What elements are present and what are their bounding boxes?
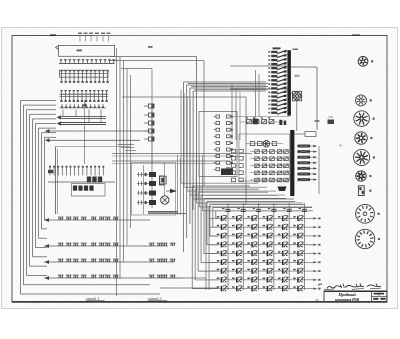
matrix column 4 wire: [273, 203, 275, 290]
connector X1 body: [59, 46, 115, 57]
matrix cell VT36: [293, 234, 295, 235]
corner links into cluster: [118, 144, 135, 146]
relay module A8: [358, 186, 364, 196]
matrix cell VT62: [232, 260, 234, 261]
wire node row top: [230, 65, 287, 67]
resistor R5: [328, 120, 335, 125]
matrix cell VT96: [293, 286, 295, 287]
relay K2 chain contacts: [149, 172, 156, 177]
drawing frame border: [12, 36, 387, 302]
matrix cell VT25: [278, 225, 280, 226]
signal row 2 contacts A: [58, 243, 60, 246]
matrix cell VT63: [247, 260, 249, 261]
matrix column 1 capacitor: [226, 208, 231, 210]
matrix cell VT35: [278, 234, 280, 235]
signal row 1 contacts A: [58, 217, 60, 220]
title block dividers: [371, 291, 373, 302]
center bundle B verticals: [183, 82, 185, 252]
relay group box outline: [239, 134, 290, 181]
diode pair VD1: [253, 119, 259, 125]
top link wire 2: [110, 60, 204, 62]
matrix cell VT91: [217, 286, 219, 287]
wire XS1 to right node: [291, 66, 317, 68]
block left edge wire: [84, 100, 86, 164]
top link wire 3: [121, 68, 152, 70]
cluster C relay blobs A: [87, 177, 91, 183]
svg-text:1,5k: 1,5k: [328, 115, 334, 119]
motor symbol M1 box: [293, 91, 302, 101]
signal row 3 wire: [44, 261, 174, 263]
matrix cell VT72: [232, 269, 234, 270]
bus rule pair upper: [61, 115, 106, 117]
row flag 2a: [57, 115, 62, 119]
relay column R3: [231, 149, 235, 153]
matrix cell VT15: [278, 216, 280, 217]
matrix column 1 wire: [227, 203, 229, 290]
tube socket V6: [354, 149, 370, 165]
arrow contact glyph: [170, 189, 177, 193]
signal row 4 flag: [45, 276, 50, 280]
matrix cell VT41: [217, 242, 219, 243]
relay matrix R2 grid: [255, 150, 260, 154]
connector strip XS2 body bar: [290, 130, 294, 196]
matrix cell VT92: [232, 286, 234, 287]
tube socket V1: [358, 56, 368, 66]
matrix cell VT93: [247, 286, 249, 287]
signal row 2 contacts Ab: [91, 243, 93, 246]
matrix row 5 wire: [209, 253, 314, 255]
cluster C left flags: [48, 170, 53, 173]
matrix cell VT12: [232, 216, 234, 217]
matrix cell VT42: [232, 242, 234, 243]
connector X1 pin comb: [59, 63, 115, 65]
tube socket V3: [356, 95, 367, 106]
matrix cell VT43: [247, 242, 249, 243]
resistor R4 in cluster: [160, 176, 165, 185]
top link wire 1: [110, 56, 197, 58]
left wire bundle verticals: [20, 101, 22, 295]
title block outline: [324, 291, 387, 302]
row flag 1a: [82, 103, 86, 107]
signal row 2 contacts B: [149, 243, 151, 246]
matrix cell VT26: [293, 225, 295, 226]
matrix cell VT14: [263, 216, 265, 217]
signal row 1 flag: [45, 218, 50, 222]
gap crossing wire: [230, 116, 290, 118]
matrix row 7 wire: [209, 270, 314, 272]
connector X3 pin comb: [60, 93, 109, 95]
matrix cell VT73: [247, 269, 249, 270]
component chain wire: [151, 104, 153, 208]
relay K2 cluster box: [132, 163, 176, 216]
cluster C outline box: [72, 184, 106, 197]
signal row 1 wire: [44, 219, 150, 221]
connector X2 posts: [61, 70, 63, 82]
comb block to bus links: [62, 110, 64, 117]
matrix cell VT74: [263, 269, 265, 270]
matrix cell VT23: [247, 225, 249, 226]
matrix row 3 wire: [209, 235, 314, 237]
matrix column 5 wire: [288, 203, 290, 290]
wire XT1 right bus: [318, 146, 320, 194]
signal row 1 contacts Ab: [91, 217, 93, 220]
signal row 4 wire: [44, 277, 182, 279]
matrix column 2 wire: [242, 203, 244, 290]
motor symbol M1: [293, 92, 301, 100]
cluster right wires: [177, 155, 179, 215]
matrix cell VT54: [263, 251, 265, 252]
short row 1g wire: [48, 130, 151, 132]
matrix row 4 wire: [209, 244, 314, 246]
matrix column 4 capacitor: [271, 208, 276, 210]
connector strip XS1 pins: [268, 51, 270, 53]
signal row 2 flag: [45, 244, 50, 248]
signal row 2 wire: [44, 245, 168, 247]
tube socket V5: [355, 132, 367, 144]
matrix cell VT94: [263, 286, 265, 287]
matrix cell VT75: [278, 269, 280, 270]
tube socket V10: [355, 229, 374, 248]
connector wedge W1: [278, 187, 287, 192]
approval signatures: [327, 286, 342, 289]
matrix cell VT21: [217, 225, 219, 226]
matrix cell VT95: [278, 286, 280, 287]
matrix cell VT83: [247, 278, 249, 279]
matrix cell VT46: [293, 242, 295, 243]
cluster label underline: [148, 213, 186, 215]
matrix cell VT81: [217, 278, 219, 279]
contact pair near bar: [279, 120, 282, 125]
cluster C relay blobs B: [73, 186, 77, 191]
matrix cell VT55: [278, 251, 280, 252]
matrix column 3 wire: [258, 203, 260, 290]
matrix cell VT76: [293, 269, 295, 270]
svg-text:signal 2: signal 2: [148, 296, 161, 301]
matrix cell VT31: [217, 234, 219, 235]
svg-text:48v: 48v: [294, 74, 300, 78]
matrix cell VT66: [293, 260, 295, 261]
matrix column 3 capacitor: [256, 208, 261, 210]
tube socket V7: [356, 171, 366, 181]
indicator lamp H1: [161, 196, 169, 204]
connector X1 top labels: [78, 33, 82, 34]
matrix cell VT86: [293, 278, 295, 279]
cluster C bus line: [48, 181, 115, 183]
matrix cell VT45: [278, 242, 280, 243]
tube socket V9: [356, 204, 375, 223]
mid link wire pair 6: [112, 160, 230, 162]
matrix cell VT52: [232, 251, 234, 252]
resistor R6 box: [160, 176, 166, 184]
matrix cell VT82: [232, 278, 234, 279]
matrix cell VT51: [217, 251, 219, 252]
connector strip XS1 body bar: [287, 50, 291, 116]
terminal ladder L1 pins: [216, 115, 220, 118]
signal row 3 contacts B: [149, 259, 151, 262]
connector X4 stub row: [60, 107, 107, 109]
signal row 4 contacts B: [149, 275, 151, 278]
matrix cell VT71: [217, 269, 219, 270]
mid link wire 4: [122, 96, 246, 98]
matrix column 2 capacitor: [241, 208, 246, 210]
terminal ladder L1 outline: [199, 112, 237, 177]
relay K1 stack: [149, 104, 155, 108]
signal row 4 contacts A: [58, 275, 60, 278]
component cluster C ticks: [49, 168, 51, 176]
matrix cell VT84: [263, 278, 265, 279]
matrix cell VT65: [278, 260, 280, 261]
wire through R6: [163, 163, 165, 196]
wire M1 stub: [291, 92, 293, 94]
matrix cell VT44: [263, 242, 265, 243]
bus wires to connector strip XS1: [188, 83, 268, 85]
matrix cell VT16: [293, 216, 295, 217]
matrix cell VT24: [263, 225, 265, 226]
mid link wire pair 5: [112, 153, 252, 155]
svg-text:signal 1: signal 1: [86, 296, 99, 301]
signal row 3 contacts Ab: [91, 259, 93, 262]
matrix cell VT22: [232, 225, 234, 226]
center bundle A verticals: [116, 48, 118, 296]
connector X2 body: [60, 70, 109, 77]
matrix row 1 wire: [209, 217, 314, 219]
upper nested bus corners: [180, 90, 182, 183]
matrix cell VT61: [217, 260, 219, 261]
svg-text:компания РЅВ: компания РЅВ: [335, 297, 359, 302]
strip XS1 top label: [273, 47, 281, 49]
short row 2g wire: [48, 139, 141, 141]
left box edge pair: [55, 147, 57, 215]
relay row R1b: [250, 142, 255, 146]
matrix cell VT34: [263, 234, 265, 235]
matrix cell VT56: [293, 251, 295, 252]
matrix row 8 wire: [209, 279, 314, 281]
signal row 3 contacts A: [58, 259, 60, 262]
matrix cell VT85: [278, 278, 280, 279]
matrix column 6 capacitor: [302, 208, 307, 210]
row flag 2b: [57, 121, 62, 125]
matrix cell VT11: [217, 216, 219, 217]
tick mark TY: [148, 46, 153, 48]
terminal block XT1 butterfly rows: [298, 145, 311, 148]
ladder L1 base block: [221, 169, 233, 176]
staircase bus wires: [191, 186, 193, 289]
matrix column 5 capacitor: [287, 208, 292, 210]
svg-text:Phi: Phi: [339, 145, 343, 148]
relay row R1 contacts: [247, 120, 252, 124]
tube socket V4: [354, 111, 370, 127]
vertical feeders near strips: [231, 84, 233, 140]
matrix row 2 wire: [209, 226, 314, 228]
matrix cell VT13: [247, 216, 249, 217]
matrix cell VT53: [247, 251, 249, 252]
matrix row 9 wire: [209, 288, 314, 290]
matrix cell VT64: [263, 260, 265, 261]
component box above XT1: [305, 132, 316, 137]
gear circle M2: [263, 141, 270, 148]
matrix cell VT32: [232, 234, 234, 235]
matrix row 6 wire: [209, 261, 314, 263]
wire M1 down: [296, 101, 298, 131]
signal row 3 flag: [45, 260, 50, 264]
signal row 4 contacts Ab: [91, 275, 93, 278]
matrix cell VT33: [247, 234, 249, 235]
svg-text:42: 42: [316, 298, 320, 302]
bus rule pair lower: [61, 122, 106, 124]
matrix column 6 wire: [304, 203, 306, 290]
matrix left feeder pair: [205, 203, 207, 290]
